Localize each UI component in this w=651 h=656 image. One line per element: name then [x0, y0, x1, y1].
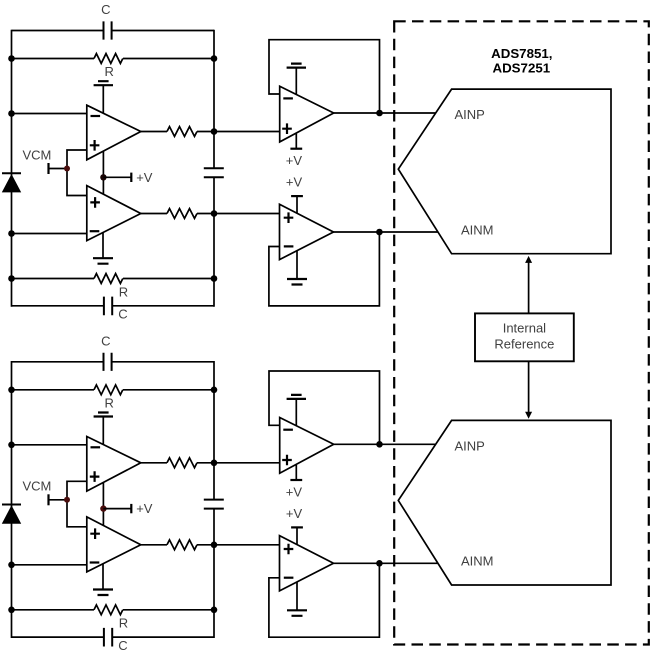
arrow: reference to channel 1 ADC: [525, 256, 532, 314]
svg-text:+V: +V: [136, 170, 153, 185]
wire: op-amp2 inverting input (ch1): [12, 233, 87, 235]
op-amp U1 plus symbol (ch2): [90, 471, 100, 482]
wire: bottom feedback (C) (ch1): [12, 305, 215, 307]
capacitor C differential (mid rail) (ch2): [204, 500, 224, 509]
op-amp U2 (ch2): [87, 517, 141, 572]
op-amp buffer U3 (ch1): [280, 86, 334, 142]
svg-text:R: R: [105, 64, 114, 79]
svg-text:C: C: [118, 307, 127, 322]
node: left rail / R bottom (ch2): [8, 607, 15, 614]
node: left rail / in1- (ch2): [8, 442, 15, 449]
op-amp U1 minus symbol (ch1): [91, 115, 101, 117]
wire: op-amp1 output (ch2): [141, 462, 280, 464]
node: mid rail / R top (ch1): [211, 55, 218, 62]
wire: buffer2 feedback loop (ch2): [269, 563, 380, 637]
node: buffer2 output (ch2): [376, 560, 383, 567]
svg-text:ADS7851,: ADS7851,: [491, 46, 552, 61]
capacitor C differential (mid rail) (ch1): [204, 168, 224, 177]
wire: VCM (ch1): [49, 168, 68, 170]
node: VCM junction (ch2): [64, 497, 70, 503]
wire: op-amp1 inverting input (ch1): [12, 113, 87, 115]
wire: op-amp2 output (ch1): [141, 213, 280, 215]
wire: mid rail (ch1): [213, 30, 215, 307]
terminal +V (below buffer1) (ch1): [290, 134, 302, 149]
arrow: reference to channel 2 ADC: [525, 361, 532, 418]
node: left rail / R bottom (ch1): [8, 275, 15, 282]
node: buffer1 output (ch1): [376, 110, 383, 117]
wire: bottom feedback (R) (ch2): [12, 609, 215, 611]
wire: buffer1 output to AINP (ch2): [334, 443, 436, 445]
svg-text:R: R: [105, 396, 114, 411]
svg-text:C: C: [101, 2, 110, 17]
op-amp U4 minus symbol (ch1): [284, 245, 294, 247]
op-amp U2 plus symbol (ch1): [90, 197, 100, 208]
node: mid rail / out1 (ch2): [211, 460, 218, 467]
ground (below op-amp2) (ch2): [93, 564, 113, 595]
svg-text:VCM: VCM: [22, 479, 51, 494]
wire: op-amp1 output (ch1): [141, 131, 280, 133]
op-amp buffer U4 (ch1): [280, 204, 334, 259]
node: left rail / in2- (ch2): [8, 562, 15, 569]
capacitor C feedback bottom (ch2): [104, 628, 112, 647]
wire: buffer1 feedback loop (ch2): [269, 371, 380, 444]
node: +V junction (ch2): [100, 505, 106, 511]
svg-text:VCM: VCM: [22, 147, 51, 162]
node: mid rail / R bottom (ch2): [211, 607, 218, 614]
node: VCM junction (ch1): [64, 166, 70, 172]
svg-text:AINM: AINM: [461, 554, 494, 569]
ADC input stage shape (channel 2): [398, 420, 611, 585]
wire: buffer2 output to AINM (ch1): [334, 231, 439, 233]
svg-text:Internal: Internal: [503, 321, 546, 336]
svg-text:+V: +V: [286, 506, 303, 521]
op-amp U2 (ch1): [87, 186, 141, 241]
resistor (output1 series) (ch2): [167, 458, 197, 468]
node: mid rail / R top (ch2): [211, 387, 218, 394]
terminal +V (ch1): [130, 173, 132, 182]
op-amp U3 minus symbol (ch1): [283, 97, 293, 99]
svg-text:AINM: AINM: [461, 222, 494, 237]
op-amp U4 plus symbol (ch2): [284, 544, 294, 555]
ADC input stage shape (channel 1): [398, 89, 611, 254]
op-amp U3 plus symbol (ch2): [282, 455, 292, 466]
wire: buffer1 feedback loop (ch1): [269, 40, 380, 113]
op-amp U1 (ch1): [87, 105, 141, 160]
wire: left input rail (ch2): [11, 361, 13, 638]
node: left rail / R top (ch1): [8, 55, 15, 62]
ground (above buffer1) (ch2): [287, 395, 306, 426]
node: left rail / R top (ch2): [8, 387, 15, 394]
wire: op-amp1 inverting input (ch2): [12, 444, 87, 446]
wire: mid rail (ch2): [213, 361, 215, 638]
terminal +V (ch2): [130, 504, 132, 513]
op-amp U1 plus symbol (ch1): [90, 140, 100, 151]
resistor R feedback bottom (ch1): [94, 274, 123, 284]
wire: bottom feedback (R) (ch1): [12, 278, 215, 280]
node: mid rail / R bottom (ch1): [211, 275, 218, 282]
svg-text:Reference: Reference: [494, 337, 554, 352]
resistor (output2 series) (ch2): [167, 540, 197, 550]
capacitor C feedback top (ch1): [104, 21, 112, 39]
svg-text:C: C: [101, 333, 110, 348]
wire: bottom feedback (C) (ch2): [12, 636, 215, 638]
dashed box: ADC boundary: [394, 21, 649, 644]
node: buffer1 output (ch2): [376, 441, 383, 448]
wire: top feedback (R) (ch1): [12, 58, 215, 60]
wire: VCM L-wire to op-amp inputs (ch1): [67, 150, 87, 196]
ground (above op-amp1) (ch1): [94, 81, 113, 113]
wire: VCM L-wire to op-amp inputs (ch2): [67, 481, 87, 527]
diode D(ch2) (input, anode up): [2, 505, 21, 524]
op-amp U4 minus symbol (ch2): [284, 577, 294, 579]
wire: top feedback (R) (ch2): [12, 389, 215, 391]
terminal VCM (ch1): [47, 163, 49, 174]
ground (above op-amp1) (ch2): [94, 413, 113, 445]
wire: top feedback (C) (ch1): [12, 30, 215, 32]
wire: buffer1 output to AINP (ch1): [334, 112, 436, 114]
op-amp U2 plus symbol (ch2): [90, 528, 100, 539]
svg-text:AINP: AINP: [455, 438, 485, 453]
op-amp U3 plus symbol (ch1): [282, 123, 292, 134]
wire: +V (ch2): [103, 508, 131, 510]
ground (below buffer2) (ch1): [287, 251, 307, 285]
diode D(ch1) (input, anode up): [2, 173, 21, 192]
terminal +V (above buffer2) (ch2): [291, 527, 303, 544]
terminal VCM (ch2): [47, 494, 49, 505]
svg-text:C: C: [118, 638, 127, 653]
wire: VCM (ch2): [49, 499, 68, 501]
wire: left input rail (ch1): [11, 30, 13, 307]
capacitor C feedback bottom (ch1): [104, 297, 112, 316]
terminal +V (below buffer1) (ch2): [290, 465, 302, 480]
node: mid rail / out2 (ch2): [211, 542, 218, 549]
ground (below buffer2) (ch2): [287, 582, 307, 616]
svg-text:+V: +V: [286, 153, 303, 168]
svg-text:R: R: [119, 616, 128, 631]
wire: supply rail between op-amps (ch2): [102, 483, 104, 526]
op-amp U2 minus symbol (ch1): [90, 230, 100, 232]
svg-text:ADS7251: ADS7251: [492, 60, 550, 75]
op-amp buffer U4 (ch2): [280, 536, 334, 591]
capacitor C feedback top (ch2): [104, 353, 112, 371]
node: mid rail / out1 (ch1): [211, 128, 218, 135]
wire: top feedback (C) (ch2): [12, 361, 215, 363]
svg-text:+V: +V: [136, 501, 153, 516]
wire: op-amp2 output (ch2): [141, 544, 280, 546]
wire: supply rail between op-amps (ch1): [102, 151, 104, 194]
node: left rail / in2- (ch1): [8, 230, 15, 237]
op-amp U2 minus symbol (ch2): [90, 561, 100, 563]
svg-text:R: R: [119, 284, 128, 299]
resistor (output2 series) (ch1): [167, 209, 197, 219]
svg-text:+V: +V: [286, 175, 303, 190]
svg-text:AINP: AINP: [455, 107, 485, 122]
ground (above buffer1) (ch1): [287, 64, 306, 95]
resistor R feedback top (ch2): [94, 385, 123, 395]
svg-text:+V: +V: [286, 485, 303, 500]
node: mid rail / out2 (ch1): [211, 210, 218, 217]
node: +V junction (ch1): [100, 174, 106, 180]
wire: op-amp2 inverting input (ch2): [12, 564, 87, 566]
resistor R feedback top (ch1): [94, 54, 123, 64]
resistor (output1 series) (ch1): [167, 127, 197, 137]
resistor R feedback bottom (ch2): [94, 605, 123, 615]
ground (below op-amp2) (ch1): [93, 232, 113, 263]
internal reference box: [475, 313, 574, 361]
op-amp U1 (ch2): [87, 437, 141, 492]
terminal +V (above buffer2) (ch1): [291, 196, 303, 213]
op-amp buffer U3 (ch2): [280, 418, 334, 474]
op-amp U4 plus symbol (ch1): [284, 212, 294, 223]
op-amp U3 minus symbol (ch2): [283, 429, 293, 431]
op-amp U1 minus symbol (ch2): [91, 446, 101, 448]
wire: buffer2 feedback loop (ch1): [269, 232, 380, 306]
node: left rail / in1- (ch1): [8, 110, 15, 117]
wire: +V (ch1): [103, 176, 131, 178]
wire: buffer2 output to AINM (ch2): [334, 562, 439, 564]
node: buffer2 output (ch1): [376, 229, 383, 236]
